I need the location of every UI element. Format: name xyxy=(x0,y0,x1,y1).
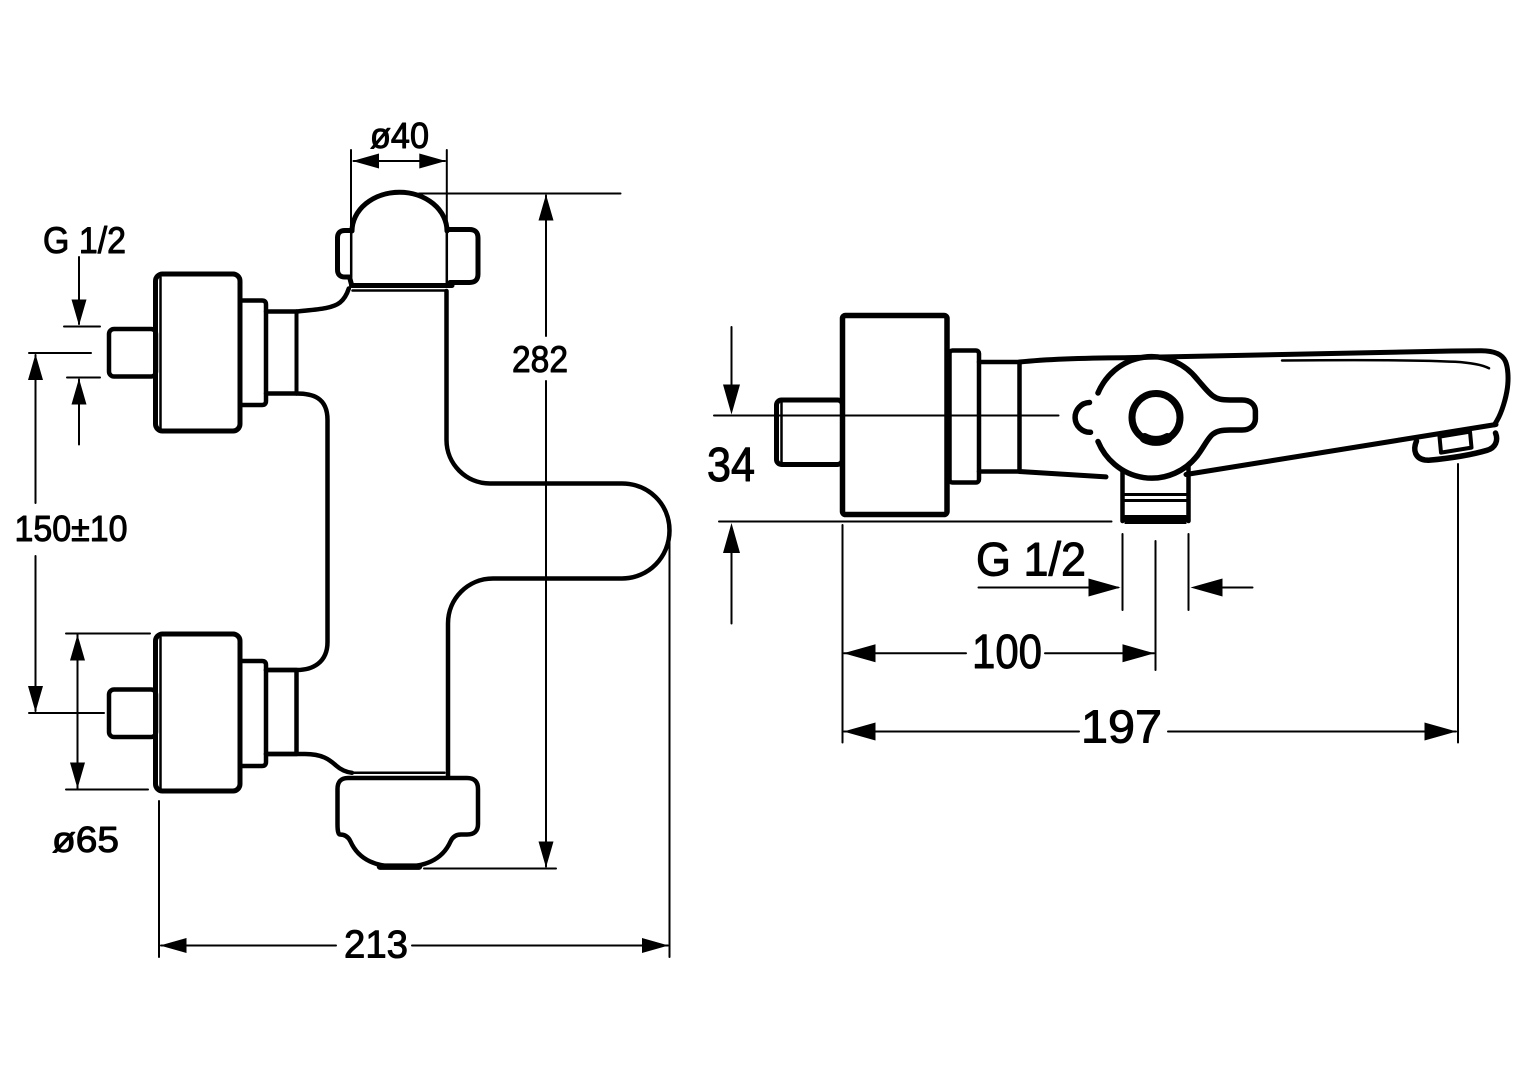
body bottom diagonal to spout tip xyxy=(1186,425,1496,475)
bottom knob step xyxy=(240,661,266,766)
handle right lobe xyxy=(1197,379,1255,456)
dimension 100 arrows xyxy=(844,644,1155,662)
top knob step xyxy=(240,301,266,406)
spout outlet outline (tabs + dome) xyxy=(338,778,479,867)
shower outlet under-line xyxy=(353,289,447,292)
dimension ø65 lines xyxy=(66,634,150,790)
handle inner circle xyxy=(1132,394,1180,442)
spout dome flat bottom xyxy=(380,863,419,870)
top knob neck joint line xyxy=(295,312,299,394)
bath outlet connector below handle xyxy=(1123,465,1189,521)
bath outlet bottom cap xyxy=(1125,516,1186,524)
shower outlet left tab xyxy=(338,231,353,285)
bottom knob neck edges xyxy=(266,670,297,754)
aerator housing xyxy=(1415,433,1497,460)
body bottom-left curve to spout outlet xyxy=(266,754,352,773)
dimension ø40 lines xyxy=(351,150,447,229)
shower outlet baseline xyxy=(352,283,453,288)
body top edge xyxy=(1020,351,1453,362)
svg-text:282: 282 xyxy=(512,339,568,380)
dimension G 1/2 (side) lines xyxy=(979,534,1253,670)
dimension 197 lines xyxy=(844,464,1458,743)
bottom knob body inner line xyxy=(159,638,162,789)
body bottom edge left of handle xyxy=(1020,472,1107,477)
svg-text:213: 213 xyxy=(344,924,408,967)
handle big circle upper arc xyxy=(1098,357,1197,393)
side knob stub xyxy=(777,400,843,465)
shower outlet dome joint lines xyxy=(350,232,353,277)
top knob neck bottom edge xyxy=(266,391,297,396)
dimension 34 lines xyxy=(731,327,733,624)
dimension G 1/2 (side) arrows xyxy=(1089,579,1223,597)
svg-text:ø65: ø65 xyxy=(52,819,119,860)
top knob body xyxy=(156,274,241,431)
dimension 213 lines xyxy=(159,532,670,957)
top knob body inner line xyxy=(159,278,162,429)
dimension 282 arrows xyxy=(539,195,554,868)
shower outlet right tab xyxy=(447,230,478,283)
handle big circle lower arc xyxy=(1098,442,1197,479)
side knob stub inner line xyxy=(780,403,783,463)
side knob body xyxy=(843,316,948,515)
dimension G 1/2 (front) arrows xyxy=(72,300,87,405)
body top-left curve to shower outlet xyxy=(297,289,349,312)
handle inner circle bottom tick xyxy=(1145,438,1168,441)
bottom knob stub xyxy=(109,690,156,738)
spout outlet top line xyxy=(353,772,445,775)
top knob stub xyxy=(109,329,156,377)
dimension ø65 arrows xyxy=(70,635,85,789)
shower outlet dome (top) xyxy=(352,192,447,231)
spout inner top line xyxy=(1282,360,1489,368)
svg-text:G 1/2: G 1/2 xyxy=(976,533,1086,586)
dimension G 1/2 (front) lines xyxy=(64,257,100,445)
dimension 213 arrows xyxy=(160,938,669,953)
aerator inner notch xyxy=(1440,432,1472,453)
dimension 282 lines xyxy=(419,194,621,869)
svg-text:G 1/2: G 1/2 xyxy=(43,220,126,261)
handle left ear xyxy=(1075,403,1090,433)
svg-text:197: 197 xyxy=(1081,701,1162,753)
dimension ø40 arrows xyxy=(353,154,446,169)
body bottom reference line xyxy=(719,521,1112,523)
svg-text:ø40: ø40 xyxy=(370,115,429,156)
top knob neck top edge xyxy=(266,309,297,314)
centerline xyxy=(714,415,1059,417)
dimension 150±10 arrows xyxy=(28,354,43,712)
dimension 150±10 lines xyxy=(29,353,104,713)
svg-text:150±10: 150±10 xyxy=(15,508,128,549)
dimension 100 lines xyxy=(843,525,1155,743)
svg-text:34: 34 xyxy=(707,439,755,492)
body left edge with curves xyxy=(266,394,328,671)
dimension 34 arrows xyxy=(723,385,740,554)
bottom knob body xyxy=(156,634,241,791)
spout nose xyxy=(1452,351,1508,425)
dimension 197 arrows xyxy=(844,723,1457,741)
svg-text:100: 100 xyxy=(972,626,1042,679)
side knob flange xyxy=(950,351,980,483)
side neck edges xyxy=(979,362,1020,472)
body right edge and S-bulge xyxy=(447,291,670,776)
